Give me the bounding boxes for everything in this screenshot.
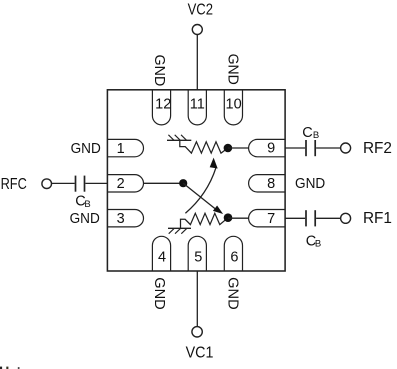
svg-text:RF2: RF2 [363, 140, 392, 157]
package outline U1 [107, 90, 285, 271]
ground symbol (top resistor) [167, 135, 191, 141]
svg-text:1: 1 [117, 141, 125, 157]
wire RF1 node to pin 7 [228, 217, 249, 219]
wire capacitor to RF2 terminal [316, 147, 341, 149]
wire pin 9 to capacitor [285, 147, 305, 149]
svg-text:3: 3 [117, 211, 125, 227]
pin 8 [249, 175, 286, 192]
terminal RFC [42, 179, 52, 189]
pin 3 [107, 210, 143, 228]
wire RF2 node to pin 9 [228, 147, 249, 149]
svg-text:GND: GND [70, 210, 100, 227]
ground symbol (bottom resistor) [168, 228, 191, 233]
svg-text:RF1: RF1 [363, 210, 392, 227]
svg-text:GND: GND [295, 175, 325, 192]
svg-text:6: 6 [230, 250, 238, 266]
wire pin 5 to VC1 [196, 271, 198, 327]
capacitor CB (RF2) [306, 140, 315, 156]
wire capacitor to pin 2 [85, 182, 107, 184]
switch arm arrow to RF1 node [183, 183, 223, 214]
svg-text:11: 11 [190, 96, 205, 112]
svg-text:VC2: VC2 [188, 2, 213, 19]
pin 5 [188, 236, 206, 271]
svg-text:4: 4 [158, 250, 166, 266]
label CB (RF2) [302, 125, 319, 141]
svg-text:GND: GND [151, 55, 167, 87]
svg-text:10: 10 [226, 96, 242, 112]
label CB (RFC) [75, 194, 90, 210]
svg-text:7: 7 [267, 211, 275, 227]
pin 10 [224, 90, 242, 125]
svg-text:GND: GND [151, 277, 167, 310]
resistor R1 (to RF2 node) [180, 140, 228, 153]
svg-text:GND: GND [71, 140, 101, 157]
pin 7 [249, 210, 286, 227]
capacitor CB (RF1) [306, 210, 315, 226]
svg-text:C: C [302, 125, 312, 141]
pin 1 [107, 139, 143, 157]
node RF2 junction [224, 144, 233, 153]
wire RFC to capacitor [52, 182, 75, 184]
wire capacitor to RF1 terminal [316, 217, 341, 219]
pin 11 [188, 90, 206, 125]
svg-text:9: 9 [267, 140, 275, 156]
svg-text:B: B [315, 239, 321, 250]
wire pin 2 to node [144, 182, 184, 184]
pin 6 [224, 236, 242, 271]
pin 12 [152, 90, 171, 125]
capacitor CB (RFC) [76, 176, 85, 192]
terminal RF2 [341, 143, 351, 153]
svg-text:8: 8 [267, 176, 275, 192]
svg-text:GND: GND [225, 54, 241, 85]
wire pin 7 to capacitor [285, 217, 305, 219]
terminal VC1 [192, 327, 202, 337]
terminal VC2 [192, 25, 202, 35]
svg-text:B: B [84, 199, 90, 210]
pin 9 [249, 139, 286, 156]
svg-text:5: 5 [194, 250, 202, 266]
pin 2 [107, 175, 143, 193]
svg-text:GND: GND [225, 277, 241, 310]
svg-text:B: B [313, 130, 319, 141]
cropped text "Note" at bottom edge [0, 367, 20, 369]
svg-text:2: 2 [117, 176, 125, 192]
label CB (RF1) [306, 234, 322, 250]
svg-text:VC1: VC1 [186, 345, 214, 362]
switch throw curved arrow to RF2 node [185, 158, 217, 214]
node RF1 junction [224, 213, 233, 222]
resistor R2 (to RF1 node) [181, 213, 229, 228]
svg-text:RFC: RFC [1, 176, 27, 193]
svg-text:12: 12 [155, 96, 171, 112]
terminal RF1 [341, 213, 351, 223]
wire VC2 to pin 11 [196, 35, 198, 90]
node RFC junction [179, 179, 187, 187]
pin 4 [152, 236, 170, 271]
